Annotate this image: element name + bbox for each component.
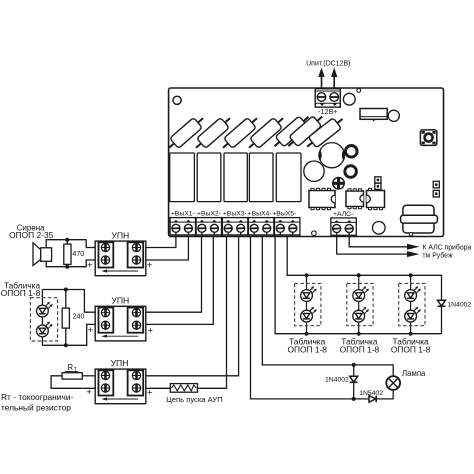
svg-text:Цепь пуска АУП: Цепь пуска АУП — [166, 395, 222, 404]
svg-text:-12В+: -12В+ — [318, 107, 337, 116]
svg-text:ОПОП 2-35: ОПОП 2-35 — [9, 230, 53, 240]
svg-text:ОПОП 1-8: ОПОП 1-8 — [340, 344, 380, 354]
svg-text:ОПОП 1-8: ОПОП 1-8 — [391, 344, 431, 354]
svg-text:1N5402: 1N5402 — [359, 390, 383, 397]
svg-text:+ВыХ2-: +ВыХ2- — [197, 211, 221, 218]
svg-text:+: + — [88, 325, 94, 336]
svg-text:+: + — [86, 387, 92, 398]
svg-text:+АЛС-: +АЛС- — [333, 211, 353, 218]
svg-text:1N4002: 1N4002 — [325, 376, 349, 383]
svg-text:R: R — [67, 363, 73, 372]
svg-text:+: + — [147, 388, 153, 399]
svg-text:Лампа: Лампа — [402, 369, 426, 378]
svg-text:+ВыХ1-: +ВыХ1- — [171, 211, 195, 218]
svg-text:УПН: УПН — [111, 358, 129, 368]
svg-text:+: + — [148, 325, 154, 336]
svg-text:К АЛС прибора: К АЛС прибора — [422, 244, 471, 252]
svg-text:Rт - токоограничи-: Rт - токоограничи- — [1, 392, 74, 402]
svg-text:+: + — [147, 260, 153, 271]
svg-text:Uпит.(DC12В): Uпит.(DC12В) — [306, 61, 350, 68]
svg-text:1N4002: 1N4002 — [447, 302, 471, 309]
svg-text:+ВыХ3-: +ВыХ3- — [223, 211, 247, 218]
svg-text:УПН: УПН — [111, 296, 129, 306]
svg-text:тельный резистор: тельный резистор — [1, 402, 71, 412]
svg-text:+ВыХ5-: +ВыХ5- — [272, 211, 296, 218]
svg-text:тм Рубеж: тм Рубеж — [422, 252, 453, 260]
svg-text:УПН: УПН — [111, 230, 129, 240]
svg-text:240: 240 — [73, 313, 85, 321]
svg-text:+: + — [87, 260, 93, 271]
svg-text:+ВыХ4-: +ВыХ4- — [248, 211, 272, 218]
svg-text:470: 470 — [72, 250, 84, 258]
svg-text:ОПОП 1-8: ОПОП 1-8 — [1, 288, 41, 298]
svg-text:ОПОП 1-8: ОПОП 1-8 — [287, 344, 327, 354]
